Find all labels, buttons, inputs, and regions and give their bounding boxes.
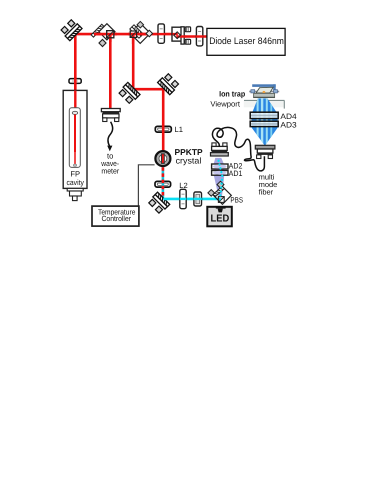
lens AD4 bbox=[250, 112, 278, 118]
FP cavity mount bbox=[67, 188, 83, 200]
waveplate block in cyan beam bbox=[194, 192, 202, 206]
main red beam from laser (right segment, y=36.5) bbox=[177, 35, 207, 38]
lens L1 bbox=[155, 125, 183, 134]
mirror M1 (top-left) bbox=[60, 19, 82, 41]
dual-color dashed beam PPKTP to mirror MC bbox=[162, 167, 165, 199]
svg-text:L1: L1 bbox=[175, 125, 183, 134]
lens AD3 bbox=[250, 121, 278, 126]
fiber coupler (multimode, left / output side) bbox=[211, 143, 229, 156]
multimode fiber cable bbox=[212, 127, 264, 170]
lens AD2 bbox=[212, 164, 228, 169]
viewport window band bbox=[244, 100, 285, 108]
cyan beam MC to PBS bbox=[163, 198, 220, 201]
FP cavity box bbox=[63, 90, 87, 188]
PBS assembly bbox=[208, 181, 231, 204]
ion trap assembly bbox=[249, 84, 279, 97]
fiber coupler (multimode, right / from trap) bbox=[255, 145, 275, 158]
PPKTP crystal oven bbox=[155, 147, 203, 166]
wavemeter fiber + arrow bbox=[107, 122, 113, 152]
beam BS2 down to mirror MA bbox=[132, 34, 135, 89]
collimating lens in cyan beam bbox=[180, 189, 187, 208]
svg-text:AD1: AD1 bbox=[229, 169, 243, 178]
svg-text:Viewport: Viewport bbox=[210, 100, 240, 109]
wavemeter fiber coupler bbox=[101, 109, 120, 122]
lens L2 (horizontal, in vertical beam) bbox=[155, 181, 188, 190]
AOM box with deflection bbox=[172, 27, 191, 44]
Temperature Controller box bbox=[92, 206, 139, 226]
beam MB down through L1 to PPKTP bbox=[162, 89, 165, 152]
mirror MA (x=133 beam corner down-to-right) bbox=[118, 82, 140, 104]
blue fluorescence cone from ion to fiber coupler bbox=[252, 96, 278, 148]
beamsplitter BS2 bbox=[128, 21, 153, 44]
mirror MC (below L2) bbox=[148, 192, 170, 214]
svg-text:PBS: PBS bbox=[230, 196, 243, 205]
cyan dotted beam centerline PBS to fiber bbox=[218, 158, 223, 200]
waveplate pill after BS2 bbox=[158, 24, 166, 43]
beam BS1 down to wavemeter coupler bbox=[109, 34, 112, 109]
svg-text:LED: LED bbox=[211, 213, 230, 224]
mirror MB (corner right-to-down) bbox=[158, 73, 180, 95]
beam M1 down to FP cavity bbox=[74, 34, 77, 112]
multi mode fiber label bbox=[259, 173, 278, 197]
svg-text:meter: meter bbox=[101, 167, 119, 176]
lens AD1 bbox=[212, 171, 228, 176]
svg-text:L2: L2 bbox=[179, 181, 187, 190]
temperature controller wire bbox=[138, 165, 154, 206]
LED bbox=[207, 206, 232, 226]
svg-text:AD3: AD3 bbox=[280, 120, 296, 129]
waveplate pill before laser bbox=[196, 27, 203, 46]
svg-text:Controller: Controller bbox=[102, 214, 132, 223]
svg-text:fiber: fiber bbox=[259, 188, 274, 197]
Diode Laser box bbox=[207, 28, 285, 55]
to wave-meter label bbox=[100, 151, 119, 175]
beamsplitter BS1 bbox=[91, 24, 117, 47]
violet beam AD lenses to PBS bbox=[214, 158, 225, 198]
beam MA to MB bbox=[133, 88, 163, 91]
svg-text:cavity: cavity bbox=[67, 178, 85, 187]
svg-text:Diode Laser 846nm: Diode Laser 846nm bbox=[209, 35, 284, 46]
svg-text:Ion trap: Ion trap bbox=[219, 90, 245, 99]
svg-text:crystal: crystal bbox=[176, 155, 202, 165]
FP cavity input lens bbox=[69, 78, 81, 85]
main red beam (left segment, y=34.1) bbox=[75, 33, 177, 36]
